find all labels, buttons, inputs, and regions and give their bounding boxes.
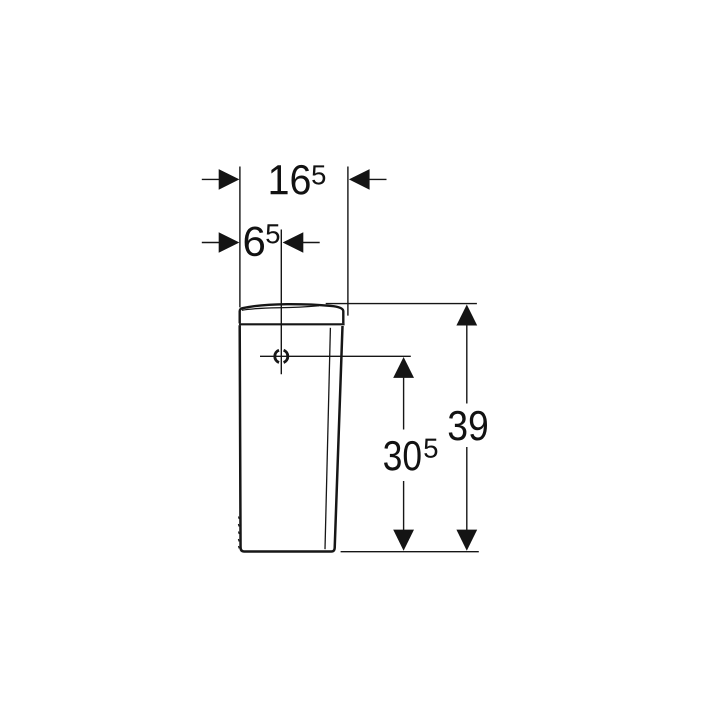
dim 16.5 right tail line [369, 178, 387, 180]
extension line (x=281.3) for dim 6.5 down through lid to hole [280, 230, 282, 375]
dim 16.5 superscript 5 [312, 165, 325, 184]
dim 30.5 line upper segment [403, 377, 405, 430]
dim 30.5 bottom arrow [393, 530, 414, 551]
dim 16.5 right arrow [349, 169, 370, 190]
dim 6.5 right tail line [303, 242, 320, 244]
cistern left edge texture ticks [237, 517, 240, 549]
dim 39 top arrow [456, 305, 477, 326]
extension line left (x=240) for dims 16.5 and 6.5 [239, 167, 241, 308]
cistern lid inner edge curve [242, 306, 319, 311]
dim 16.5 label text [271, 165, 310, 195]
dim 6.5 left tail line [202, 242, 219, 244]
cistern lid bottom line [239, 323, 345, 325]
dim 6.5 label text [245, 226, 264, 256]
cistern body inner right edge line [325, 328, 330, 549]
cistern lid outline [240, 304, 344, 323]
dim 16.5 left arrow [219, 169, 240, 190]
dim 39 line upper segment [466, 325, 468, 404]
dim 16.5 left tail line [202, 178, 219, 180]
dim 39 label text [449, 411, 487, 441]
dim 30.5 superscript 5 [424, 439, 437, 458]
dim 6.5 superscript 5 [266, 224, 279, 243]
extension line right (x=348) for dim 16.5 [347, 167, 349, 316]
dim 30.5 top arrow [393, 357, 414, 378]
dim 39 line lower segment [466, 447, 468, 530]
dim 6.5 right arrow [283, 232, 304, 253]
dim 30.5 line lower segment [403, 481, 405, 530]
dim 39 bottom extent line [341, 551, 479, 553]
cistern body outline [240, 325, 343, 551]
dim 39 top extent line [326, 303, 477, 305]
dim 39 bottom arrow [456, 530, 477, 551]
hole circle right arc [284, 350, 288, 362]
hole centerline horizontal [260, 355, 411, 357]
dim 30.5 label text [384, 441, 421, 471]
hole circle left arc [275, 350, 279, 362]
dim 6.5 left arrow [219, 232, 240, 253]
